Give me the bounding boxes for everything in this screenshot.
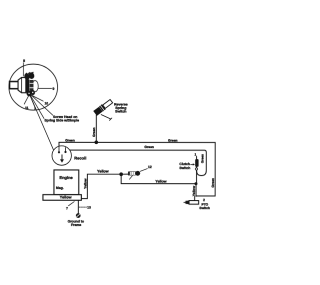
svg-text:Frame: Frame bbox=[71, 223, 81, 227]
svg-text:Yellow: Yellow bbox=[60, 196, 72, 200]
lock washer bottom pair bbox=[26, 89, 36, 97]
PTO connector nose bbox=[185, 201, 189, 205]
wire yellow drop to PTO bbox=[195, 184, 197, 197]
svg-text:Yellow: Yellow bbox=[155, 179, 166, 183]
svg-text:Switch: Switch bbox=[115, 110, 126, 114]
leader 13 dashes bbox=[79, 206, 86, 208]
flat washer bbox=[32, 81, 38, 92]
svg-text:Recoil: Recoil bbox=[74, 155, 86, 160]
leader to callout text line2 bbox=[31, 95, 45, 118]
reverse switch actuator line bbox=[101, 115, 112, 121]
long leader to recoil bbox=[30, 96, 53, 150]
svg-text:Yellow: Yellow bbox=[192, 186, 196, 197]
svg-text:8: 8 bbox=[23, 59, 25, 63]
ground wire bbox=[77, 200, 79, 214]
svg-text:13: 13 bbox=[87, 206, 91, 210]
recoil left terminal bbox=[58, 146, 60, 153]
recoil right terminal bbox=[64, 147, 66, 153]
recoil circle bbox=[52, 146, 71, 165]
leader to callout text line1 bbox=[32, 95, 53, 115]
svg-text:Engine: Engine bbox=[59, 175, 73, 180]
switch 12 leader bbox=[140, 169, 147, 172]
svg-text:9: 9 bbox=[52, 87, 54, 91]
svg-text:2: 2 bbox=[203, 198, 205, 202]
svg-text:Switch: Switch bbox=[199, 206, 210, 210]
ground circle bbox=[76, 214, 80, 218]
fan leader to 10 bbox=[31, 95, 43, 101]
svg-text:Green: Green bbox=[211, 178, 215, 188]
svg-text:10: 10 bbox=[45, 101, 49, 105]
switch 12 body bbox=[123, 171, 140, 176]
bolt hex head bbox=[18, 78, 26, 93]
svg-text:Green: Green bbox=[144, 145, 154, 149]
PTO stub bbox=[194, 196, 196, 200]
bolt shank bbox=[10, 81, 22, 88]
svg-text:Green: Green bbox=[92, 127, 96, 137]
junction dot yellow right bbox=[194, 182, 197, 185]
reverse spring switch bbox=[93, 99, 113, 116]
leader 7 (engine base) bbox=[68, 202, 74, 206]
switch 12 lower tick bbox=[129, 176, 132, 180]
engine box bbox=[54, 170, 79, 195]
detail circle bbox=[9, 64, 58, 110]
svg-text:11: 11 bbox=[25, 106, 29, 110]
junction dot yellow bbox=[119, 172, 123, 176]
recoil bottom terminal arrow bbox=[60, 155, 64, 163]
PTO connector body bbox=[189, 201, 199, 205]
washer stack bbox=[26, 79, 34, 92]
fan leader to 7 bbox=[30, 95, 35, 107]
svg-text:Green: Green bbox=[200, 154, 204, 163]
wire yellow lower run bbox=[121, 174, 196, 183]
svg-text:Switch: Switch bbox=[179, 166, 190, 170]
svg-text:Green: Green bbox=[168, 138, 178, 142]
wire green vertical from reverse switch bbox=[95, 115, 97, 142]
svg-text:Mag.: Mag. bbox=[56, 186, 64, 190]
centerline to label 9 bbox=[38, 87, 51, 89]
svg-text:Yellow: Yellow bbox=[83, 178, 87, 189]
lock washer top pair bbox=[24, 72, 35, 81]
wire yellow from engine to junction bbox=[82, 174, 122, 198]
svg-text:Green: Green bbox=[65, 138, 75, 142]
svg-text:1: 1 bbox=[194, 152, 196, 156]
clutch connector blob bbox=[195, 159, 198, 167]
PTO connector stub bbox=[184, 201, 186, 203]
svg-text:7: 7 bbox=[66, 207, 68, 211]
svg-text:12: 12 bbox=[148, 165, 152, 169]
svg-text:Spring Side w/Dimple: Spring Side w/Dimple bbox=[44, 119, 79, 123]
wire green lower: recoil to clutch loop bbox=[65, 150, 206, 176]
clutch connector dot bbox=[195, 168, 197, 170]
svg-text:7: 7 bbox=[34, 107, 36, 111]
engine base bar bbox=[43, 195, 81, 201]
clutch switch pointer arrow bbox=[191, 163, 193, 165]
clutch pigtail vertical bbox=[196, 156, 198, 183]
wire green upper: recoil to right edge down to PTO bbox=[59, 142, 215, 196]
fan leader to 11 bbox=[24, 95, 29, 105]
leader to label 8 bbox=[22, 63, 24, 76]
svg-text:Yellow: Yellow bbox=[97, 169, 109, 173]
junction dot bbox=[94, 140, 98, 144]
